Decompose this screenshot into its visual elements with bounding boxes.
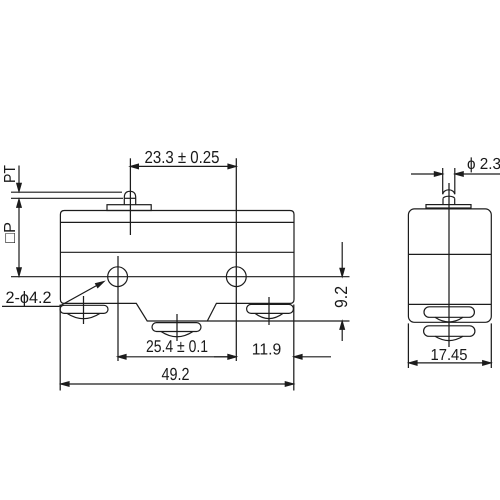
svg-text:23.3 ± 0.25: 23.3 ± 0.25 (145, 147, 220, 167)
svg-text:□P: □P (2, 222, 19, 243)
side terminal upper screw arc (435, 317, 463, 322)
plunger vertical centerline / 23.3 extension (129, 158, 131, 235)
terminal middle screw slot line (176, 314, 178, 341)
body inner line lower (60, 251, 294, 253)
svg-text:9.2: 9.2 (331, 286, 351, 308)
side view terminal line (408, 303, 491, 305)
dimension 25.4 line (118, 356, 236, 358)
side view mid line (408, 253, 491, 255)
terminal left screw arc (67, 313, 100, 318)
terminal left screw slot line (83, 296, 85, 324)
terminal right screw slot line (268, 297, 270, 325)
side terminal lower screw arc (435, 336, 463, 340)
switch body outline (front view) (60, 211, 294, 322)
mounting hole left (108, 267, 128, 287)
svg-text:25.4 ± 0.1: 25.4 ± 0.1 (146, 337, 208, 356)
side view pin dome (443, 190, 455, 194)
side terminal lower stadium (424, 326, 475, 337)
hole left vertical centerline (117, 256, 119, 361)
dimension 17.45 line (409, 362, 491, 364)
dimension 9.2 arrows (341, 242, 343, 275)
terminal left stadium (60, 305, 108, 313)
plunger cap (124, 191, 135, 204)
dimension 49.2 line (61, 383, 293, 385)
svg-text:49.2: 49.2 (162, 364, 190, 384)
side terminal upper stadium (424, 307, 474, 318)
body inner line upper (60, 221, 294, 223)
notch bottom extension line for 9.2 (208, 320, 350, 322)
dimension 23.3 +/- 0.25 line (130, 165, 236, 167)
svg-text:11.9: 11.9 (252, 342, 282, 359)
terminal middle screw arc (161, 332, 193, 337)
side view plunger base plate (426, 205, 471, 208)
svg-text:2-ϕ4.2: 2-ϕ4.2 (6, 289, 52, 307)
dimension 11.9 arrows (214, 356, 236, 358)
side view body (408, 209, 491, 322)
svg-text:PT: PT (2, 165, 19, 183)
hole right vertical centerline / 23.3 extension (235, 158, 237, 361)
mounting hole right (226, 267, 246, 287)
svg-text:ϕ 2.3: ϕ 2.3 (467, 156, 500, 173)
lever arm (11, 191, 122, 193)
hole centerline horizontal (11, 276, 350, 278)
dimension 49.2 extension lines (59, 305, 61, 391)
dimension 17.45 extension lines (407, 323, 409, 368)
side view centerline (448, 183, 450, 347)
dimension PT arrow (18, 166, 20, 190)
terminal right stadium (247, 304, 294, 313)
side view pin (442, 168, 444, 194)
svg-text:17.45: 17.45 (431, 347, 468, 364)
dimension squareP arrow (18, 201, 20, 275)
terminal middle stadium (152, 323, 201, 332)
dimension phi2.3 arrows (411, 173, 441, 175)
plunger base plate (107, 205, 151, 211)
leader 2-phi4.2 (2, 285, 99, 307)
terminal right screw arc (255, 313, 283, 318)
